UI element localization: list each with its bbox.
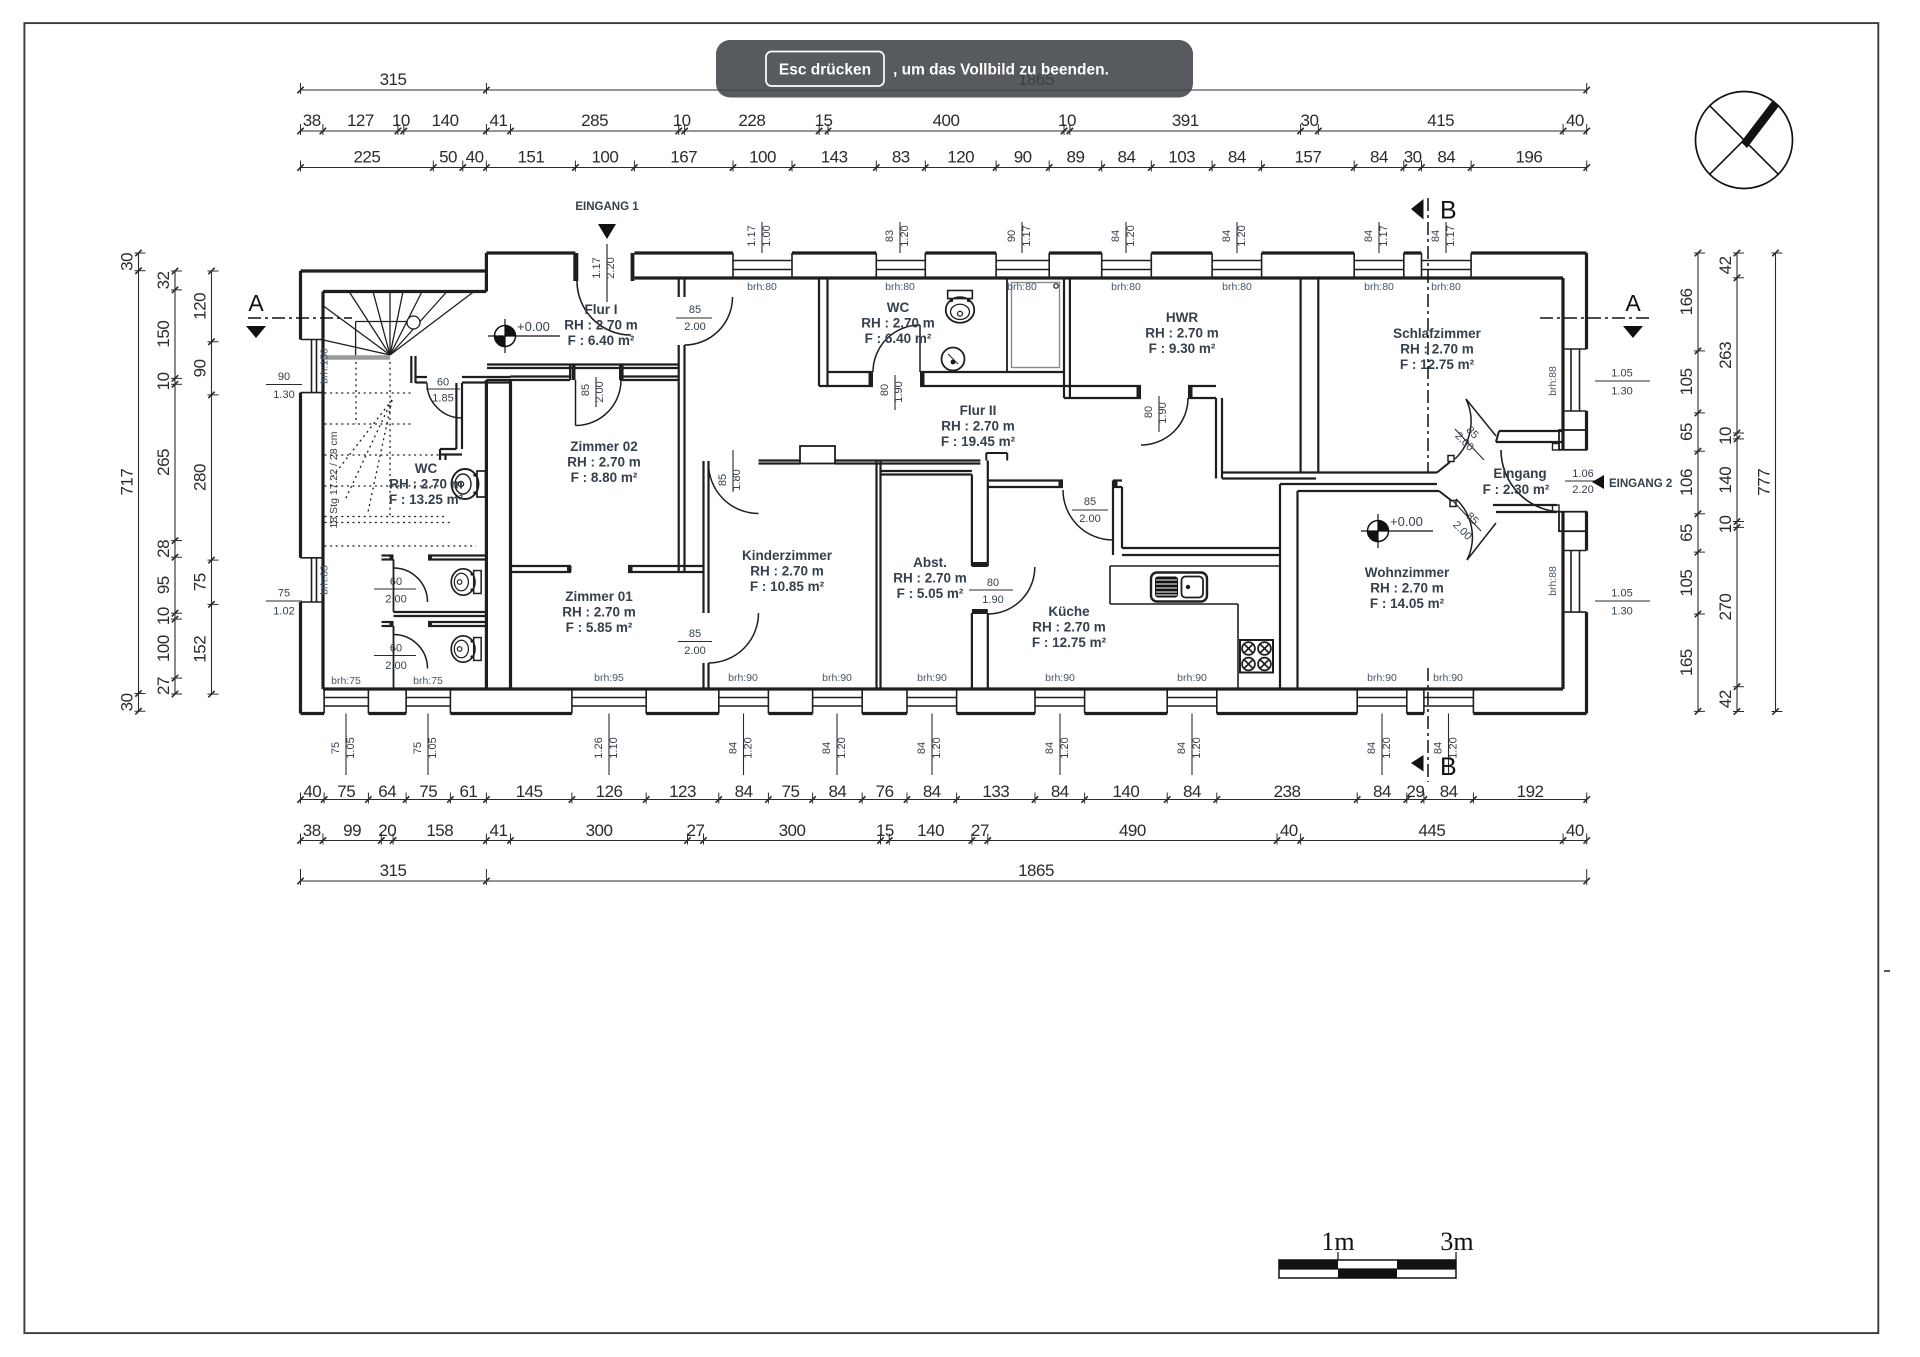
section line B-B bottom <box>1411 668 1457 782</box>
svg-text:85: 85 <box>689 628 701 640</box>
svg-text:RH : 2.70 m: RH : 2.70 m <box>389 477 463 492</box>
svg-text:28: 28 <box>154 540 173 558</box>
svg-text:84: 84 <box>1366 742 1378 754</box>
outer wall right with windows and entrance recess <box>1563 253 1587 714</box>
svg-text:30: 30 <box>118 693 137 711</box>
wall V5 Abst / Kueche divider with door <box>972 461 988 690</box>
wall cabin 1 top with door <box>382 556 487 613</box>
svg-text:84: 84 <box>1440 782 1458 801</box>
svg-text:120: 120 <box>191 293 210 320</box>
svg-text:RH : 2.70 m: RH : 2.70 m <box>567 455 641 470</box>
svg-text:30: 30 <box>118 253 137 271</box>
dimension chain right inner (window positions) <box>1677 250 1705 715</box>
svg-text:167: 167 <box>670 148 697 167</box>
svg-text:RH : 2.70 m: RH : 2.70 m <box>941 419 1015 434</box>
svg-text:brh:80: brh:80 <box>747 281 777 293</box>
svg-text:1.20: 1.20 <box>1381 737 1393 758</box>
svg-text:42: 42 <box>1716 690 1735 708</box>
wall V2 between WC block and Zimmer rooms <box>486 380 510 689</box>
svg-text:158: 158 <box>426 821 453 840</box>
svg-text:1.17: 1.17 <box>591 257 603 278</box>
svg-text:140: 140 <box>1716 467 1735 494</box>
scale bar <box>1279 1227 1474 1278</box>
window dimension leaders bottom <box>330 714 1460 776</box>
room label Eingang <box>1483 466 1550 497</box>
stairs cut line (gray bar) <box>324 355 390 360</box>
svg-text:10: 10 <box>154 607 173 625</box>
svg-text:196: 196 <box>1515 148 1542 167</box>
svg-text:777: 777 <box>1755 469 1774 496</box>
svg-text:32: 32 <box>154 271 173 289</box>
svg-text:270: 270 <box>1716 594 1735 621</box>
svg-text:brh:83: brh:83 <box>319 565 331 595</box>
svg-text:391: 391 <box>1172 111 1199 130</box>
svg-text:60: 60 <box>437 377 449 389</box>
svg-text:brh:75: brh:75 <box>331 675 361 687</box>
svg-text:Zimmer 02: Zimmer 02 <box>570 439 638 454</box>
svg-text:80: 80 <box>879 384 891 396</box>
svg-text:85: 85 <box>1084 496 1096 508</box>
svg-text:2.00: 2.00 <box>684 645 705 657</box>
svg-text:RH : 2.70 m: RH : 2.70 m <box>861 316 935 331</box>
svg-text:brh:88: brh:88 <box>1547 366 1559 396</box>
svg-text:brh:80: brh:80 <box>1222 281 1252 293</box>
dimension chain top row 2 <box>297 148 1590 172</box>
wall Flur II bottom-east <box>1222 473 1437 479</box>
svg-text:27: 27 <box>687 821 705 840</box>
svg-text:A: A <box>248 290 264 316</box>
svg-text:1.17: 1.17 <box>746 225 758 246</box>
svg-text:2.00: 2.00 <box>385 594 406 606</box>
svg-text:103: 103 <box>1168 148 1195 167</box>
svg-text:300: 300 <box>586 821 613 840</box>
svg-text:140: 140 <box>917 821 944 840</box>
dimension chain bottom row 1 <box>297 782 1590 804</box>
svg-text:105: 105 <box>1677 570 1696 597</box>
svg-text:145: 145 <box>516 782 543 801</box>
door Kinderzimmer 85/1.80 swing arc <box>709 450 759 514</box>
svg-text:1.05: 1.05 <box>1611 588 1632 600</box>
svg-text:RH : 2.70 m: RH : 2.70 m <box>1032 620 1106 635</box>
svg-text:84: 84 <box>1044 742 1056 754</box>
svg-text:84: 84 <box>1437 148 1455 167</box>
svg-text:126: 126 <box>596 782 623 801</box>
svg-text:brh:95: brh:95 <box>594 672 624 684</box>
level marker +0.00 Wohnzimmer <box>1361 514 1433 548</box>
svg-text:84: 84 <box>1430 230 1442 242</box>
svg-text:brh:80: brh:80 <box>1431 281 1461 293</box>
svg-text:EINGANG 2: EINGANG 2 <box>1609 478 1672 490</box>
dimension chain top overall (315 / 1865) <box>297 70 1590 94</box>
svg-text:1.85: 1.85 <box>432 393 453 405</box>
top wall windows (glazing lines and jambs) <box>726 253 1478 278</box>
svg-text:+0.00: +0.00 <box>517 319 550 334</box>
dimension chain right outer (777) <box>1755 250 1783 715</box>
svg-text:RH : 2.70 m: RH : 2.70 m <box>1370 581 1444 596</box>
kitchen stove <box>1240 640 1273 673</box>
svg-text:10: 10 <box>154 372 173 390</box>
outer wall top-left section <box>301 253 487 292</box>
svg-text:60: 60 <box>390 576 402 588</box>
svg-text:100: 100 <box>154 635 173 662</box>
svg-text:F : 6.40 m²: F : 6.40 m² <box>865 331 932 346</box>
svg-text:+0.00: +0.00 <box>1390 514 1423 529</box>
svg-text:F : 5.85 m²: F : 5.85 m² <box>566 620 633 635</box>
svg-text:64: 64 <box>378 782 396 801</box>
wall Flur I bottom (Zimmer 02 top) with door openings <box>416 365 679 383</box>
wall V4b Kinderzimmer / Abst divider <box>877 461 881 690</box>
wall connector HWR corner <box>1216 398 1222 479</box>
svg-text:263: 263 <box>1716 342 1735 369</box>
svg-text:1.30: 1.30 <box>1611 386 1632 398</box>
svg-text:F : 12.75 m²: F : 12.75 m² <box>1032 635 1107 650</box>
door HWR 80/1.90 swing arc <box>1141 396 1188 445</box>
wall vestibule / Wohnzimmer south <box>1493 505 1557 512</box>
svg-text:84: 84 <box>735 782 753 801</box>
door cabin 2 60/2.00 swing arc <box>374 626 428 672</box>
svg-text:1.00: 1.00 <box>761 225 773 246</box>
section line B-B top <box>1411 197 1457 473</box>
wall V7 HWR / Schlafzimmer divider <box>1301 278 1319 473</box>
svg-text:83: 83 <box>892 148 910 167</box>
svg-text:75: 75 <box>337 782 355 801</box>
svg-text:1.90: 1.90 <box>893 381 905 402</box>
svg-text:1.06: 1.06 <box>1572 468 1593 480</box>
svg-text:84: 84 <box>1051 782 1069 801</box>
svg-text:89: 89 <box>1066 148 1084 167</box>
fullscreen toast notification <box>716 40 1193 98</box>
door Wohnzimmer 85/2.00 swing arc with leaf <box>1450 499 1496 560</box>
stairs label 18 Stg <box>328 431 340 528</box>
wall V3b Zimmer 01 / Kinderzimmer with door <box>704 461 709 689</box>
kitchen sink <box>1151 573 1207 602</box>
svg-text:2.20: 2.20 <box>605 257 617 278</box>
svg-text:150: 150 <box>154 321 173 348</box>
svg-text:228: 228 <box>738 111 765 130</box>
dimension chain bottom row 2 <box>297 821 1590 845</box>
svg-text:brh:90: brh:90 <box>1177 672 1207 684</box>
door Schlafzimmer 85/2.00 swing arc with leaf <box>1452 399 1496 460</box>
svg-text:RH : 2.70 m: RH : 2.70 m <box>1145 326 1219 341</box>
shower cabin <box>1007 278 1064 372</box>
svg-text:40: 40 <box>1566 111 1584 130</box>
svg-text:10: 10 <box>673 111 691 130</box>
door Flur I to Flur II 85/2.00 swing arc <box>676 297 733 345</box>
brh labels top wall <box>747 281 1461 293</box>
svg-text:1.20: 1.20 <box>743 737 755 758</box>
svg-text:85: 85 <box>689 304 701 316</box>
door Zimmer 02 85/2.00 swing arc <box>576 377 622 426</box>
svg-text:brh:90: brh:90 <box>1045 672 1075 684</box>
svg-text:brh:80: brh:80 <box>1007 281 1037 293</box>
svg-text:1.30: 1.30 <box>1611 606 1632 618</box>
entrance arrow and label EINGANG 2 <box>1565 468 1672 496</box>
svg-text:30: 30 <box>1300 111 1318 130</box>
svg-text:40: 40 <box>1280 821 1298 840</box>
svg-text:84: 84 <box>1373 782 1391 801</box>
svg-text:84: 84 <box>821 742 833 754</box>
wall V6 WC / HWR divider <box>1064 278 1070 398</box>
stairs winder flight (solid) <box>324 292 475 357</box>
svg-text:F : 6.40 m²: F : 6.40 m² <box>568 333 635 348</box>
wall Kinderzimmer top with door and ducts <box>759 446 1008 464</box>
svg-text:42: 42 <box>1716 256 1735 274</box>
svg-text:100: 100 <box>591 148 618 167</box>
room label Flur II <box>941 403 1016 449</box>
room label Flur I <box>564 302 638 348</box>
svg-text:RH : 2.70 m: RH : 2.70 m <box>893 571 967 586</box>
svg-text:717: 717 <box>118 469 137 496</box>
north symbol <box>1696 92 1793 189</box>
vestibule funnel walls <box>1437 456 1456 507</box>
svg-text:40: 40 <box>303 782 321 801</box>
svg-text:10: 10 <box>1058 111 1076 130</box>
svg-text:1.20: 1.20 <box>899 225 911 246</box>
svg-text:75: 75 <box>782 782 800 801</box>
svg-text:90: 90 <box>191 359 210 377</box>
svg-text:RH : 2.70 m: RH : 2.70 m <box>1400 342 1474 357</box>
svg-text:Kinderzimmer: Kinderzimmer <box>742 548 833 563</box>
wall Zimmer 01 / Zimmer 02 divider <box>511 566 704 572</box>
wall HWR bottom with door 80/1.90 <box>1064 386 1216 398</box>
svg-text:2.20: 2.20 <box>1572 484 1593 496</box>
svg-text:90: 90 <box>1014 148 1032 167</box>
svg-text:27: 27 <box>154 677 173 695</box>
svg-text:F : 2.30 m²: F : 2.30 m² <box>1483 482 1550 497</box>
svg-text:157: 157 <box>1294 148 1321 167</box>
svg-text:brh:75: brh:75 <box>413 675 443 687</box>
svg-text:61: 61 <box>459 782 477 801</box>
wall V4a WC top-left <box>819 278 828 386</box>
svg-text:3m: 3m <box>1440 1227 1473 1256</box>
svg-text:60: 60 <box>390 643 402 655</box>
svg-text:brh:150: brh:150 <box>319 348 331 384</box>
svg-text:1.05: 1.05 <box>345 737 357 758</box>
window dimension leaders left <box>266 371 302 618</box>
door Kueche 85/2.00 swing arc <box>1063 490 1113 540</box>
svg-text:brh:90: brh:90 <box>917 672 947 684</box>
svg-text:10: 10 <box>1716 515 1735 533</box>
toilet cabin 2 <box>451 636 481 662</box>
svg-text:RH : 2.70 m: RH : 2.70 m <box>562 605 636 620</box>
toilet cabin 1 <box>451 569 481 595</box>
svg-text:84: 84 <box>1363 230 1375 242</box>
wall Flur II bottom-west with Kueche door <box>988 481 1280 556</box>
svg-text:152: 152 <box>191 636 210 663</box>
svg-text:85: 85 <box>717 474 729 486</box>
svg-text:75: 75 <box>330 742 342 754</box>
svg-text:Esc drücken: Esc drücken <box>779 62 871 79</box>
room label Zimmer 02 <box>567 439 641 485</box>
svg-text:127: 127 <box>347 111 374 130</box>
svg-text:20: 20 <box>378 821 396 840</box>
svg-text:1.20: 1.20 <box>1236 225 1248 246</box>
wall cabin 2 top with door <box>382 622 487 689</box>
svg-text:Eingang: Eingang <box>1493 466 1546 481</box>
svg-text:1.20: 1.20 <box>1191 737 1203 758</box>
door cabin 1 60/2.00 swing arc <box>374 560 428 606</box>
wall Wohnzimmer top towards vestibule <box>1298 484 1440 491</box>
svg-text:1.10: 1.10 <box>608 737 620 758</box>
svg-text:15: 15 <box>815 111 833 130</box>
svg-text:41: 41 <box>489 111 507 130</box>
brh labels side walls (rotated) <box>319 348 1560 596</box>
svg-text:F : 12.75 m²: F : 12.75 m² <box>1400 357 1475 372</box>
window dimension leaders top <box>746 222 1457 253</box>
svg-text:106: 106 <box>1677 469 1696 496</box>
svg-text:65: 65 <box>1677 524 1696 542</box>
wash basin round WC top <box>942 348 965 371</box>
svg-text:brh:80: brh:80 <box>885 281 915 293</box>
svg-text:1.02: 1.02 <box>273 606 294 618</box>
entrance arrow and label EINGANG 1 <box>575 201 639 302</box>
svg-text:120: 120 <box>947 148 974 167</box>
svg-text:75: 75 <box>419 782 437 801</box>
svg-text:B: B <box>1440 753 1457 781</box>
svg-text:F : 14.05 m²: F : 14.05 m² <box>1370 596 1445 611</box>
outer wall left with windows <box>301 271 324 714</box>
svg-text:84: 84 <box>923 782 941 801</box>
svg-text:brh:90: brh:90 <box>822 672 852 684</box>
svg-text:1.20: 1.20 <box>836 737 848 758</box>
svg-text:Schlafzimmer: Schlafzimmer <box>1393 326 1482 341</box>
svg-text:84: 84 <box>728 742 740 754</box>
svg-text:F : 5.05 m²: F : 5.05 m² <box>897 586 964 601</box>
svg-text:brh:80: brh:80 <box>1111 281 1141 293</box>
svg-text:Flur I: Flur I <box>585 302 618 317</box>
svg-text:1.26: 1.26 <box>593 737 605 758</box>
svg-text:1.90: 1.90 <box>982 594 1003 606</box>
svg-text:1.80: 1.80 <box>731 469 743 490</box>
dimension chain right middle <box>1716 250 1744 715</box>
svg-text:84: 84 <box>1176 742 1188 754</box>
svg-text:445: 445 <box>1418 821 1445 840</box>
svg-text:B: B <box>1440 197 1457 225</box>
door EINGANG 2 pilaster blocks <box>1553 430 1587 531</box>
door EINGANG 1 (top wall) with swing arc and jambs <box>573 253 634 335</box>
svg-text:84: 84 <box>1183 782 1201 801</box>
svg-text:Küche: Küche <box>1048 604 1090 619</box>
svg-text:99: 99 <box>343 821 361 840</box>
svg-text:415: 415 <box>1427 111 1454 130</box>
toilet WC main <box>452 469 486 499</box>
section line A-A right <box>1540 290 1650 338</box>
svg-text:80: 80 <box>987 577 999 589</box>
room label WC main <box>389 461 464 507</box>
svg-text:EINGANG 1: EINGANG 1 <box>575 201 639 213</box>
level marker +0.00 Flur I <box>488 319 560 353</box>
svg-text:brh:88: brh:88 <box>1547 566 1559 596</box>
door WC 80/1.90 swing arc <box>873 325 920 410</box>
svg-text:1.30: 1.30 <box>273 389 294 401</box>
stray mark right edge <box>1884 970 1890 972</box>
svg-text:1.20: 1.20 <box>1125 225 1137 246</box>
room label Kueche <box>1032 604 1107 650</box>
kitchen counter <box>1110 566 1280 689</box>
svg-text:38: 38 <box>303 111 321 130</box>
svg-text:140: 140 <box>1112 782 1139 801</box>
wall Schlafzimmer bottom-right <box>1496 431 1563 442</box>
svg-text:A: A <box>1625 290 1641 316</box>
svg-text:1.17: 1.17 <box>1445 225 1457 246</box>
svg-text:1m: 1m <box>1321 1227 1354 1256</box>
svg-text:2.00: 2.00 <box>684 321 705 333</box>
svg-text:285: 285 <box>581 111 608 130</box>
svg-text:1.17: 1.17 <box>1021 225 1033 246</box>
section line A-A left <box>246 290 352 338</box>
room label WC top <box>861 300 935 346</box>
svg-text:1.05: 1.05 <box>1611 368 1632 380</box>
svg-text:238: 238 <box>1274 782 1301 801</box>
door Abst 80/1.90 swing arc <box>969 567 1035 614</box>
svg-text:280: 280 <box>191 464 210 491</box>
room label Wohnzimmer <box>1365 565 1450 611</box>
svg-text:1.20: 1.20 <box>1059 737 1071 758</box>
svg-text:1.20: 1.20 <box>931 737 943 758</box>
svg-text:133: 133 <box>982 782 1009 801</box>
svg-text:166: 166 <box>1677 288 1696 315</box>
svg-text:85: 85 <box>580 384 592 396</box>
svg-text:RH : 2.70 m: RH : 2.70 m <box>750 564 824 579</box>
svg-text:84: 84 <box>1370 148 1388 167</box>
svg-text:41: 41 <box>489 821 507 840</box>
svg-text:Abst.: Abst. <box>913 555 947 570</box>
room label Kinderzimmer <box>742 548 833 594</box>
svg-text:1865: 1865 <box>1018 861 1054 880</box>
dimension chain left outer (30/717/30) <box>118 250 146 715</box>
svg-text:75: 75 <box>278 588 290 600</box>
svg-text:84: 84 <box>1110 230 1122 242</box>
svg-text:315: 315 <box>380 70 407 89</box>
svg-text:76: 76 <box>876 782 894 801</box>
wall V3a Zimmer 02 east with door to Flur <box>679 278 685 572</box>
svg-text:84: 84 <box>1221 230 1233 242</box>
svg-text:84: 84 <box>1228 148 1246 167</box>
svg-text:F : 10.85 m²: F : 10.85 m² <box>750 579 825 594</box>
svg-text:F : 13.25 m²: F : 13.25 m² <box>389 492 464 507</box>
svg-text:143: 143 <box>821 148 848 167</box>
svg-text:30: 30 <box>1404 148 1422 167</box>
window dimension leaders right <box>1595 368 1650 618</box>
room label Zimmer 01 <box>562 589 636 635</box>
dimension chain left inner <box>191 268 219 698</box>
svg-text:315: 315 <box>380 861 407 880</box>
svg-text:80: 80 <box>1143 406 1155 418</box>
svg-text:490: 490 <box>1119 821 1146 840</box>
svg-text:95: 95 <box>154 576 173 594</box>
svg-text:2.00: 2.00 <box>385 660 406 672</box>
svg-text:WC: WC <box>887 300 910 315</box>
svg-text:84: 84 <box>1118 148 1136 167</box>
wall WC east upper with jog <box>440 383 462 460</box>
svg-text:15: 15 <box>876 821 894 840</box>
svg-text:10: 10 <box>1716 427 1735 445</box>
svg-text:brh:90: brh:90 <box>1433 672 1463 684</box>
brh labels bottom wall <box>331 672 1463 687</box>
svg-text:40: 40 <box>1566 821 1584 840</box>
door WC 60/1.85 swing arc <box>426 377 462 419</box>
wall V8 Kueche / Wohnzimmer divider <box>1280 484 1298 689</box>
svg-text:HWR: HWR <box>1166 310 1198 325</box>
svg-text:65: 65 <box>1677 423 1696 441</box>
svg-text:29: 29 <box>1406 782 1424 801</box>
wall stair east stub <box>411 356 415 383</box>
room label Schlafzimmer <box>1393 326 1482 372</box>
svg-text:90: 90 <box>1006 230 1018 242</box>
svg-text:400: 400 <box>933 111 960 130</box>
toilet WC top <box>946 290 975 322</box>
door Kinderzimmer/Zimmer01 85/2.00 swing arc <box>678 613 759 663</box>
